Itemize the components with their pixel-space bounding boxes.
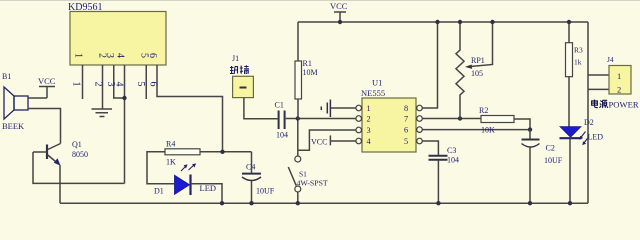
node junction VCC on rail (338, 20, 342, 24)
wire R3 top lead (568, 22, 570, 43)
wire C1 right to NE555 pin 2 (286, 118, 356, 120)
node junction R2/pin6/C2 (528, 127, 532, 131)
wire R4 left loop to D1 anode (147, 152, 174, 184)
wire speaker bottom terminal to Q1 collector (28, 109, 61, 144)
node junction RP1/pin7 (458, 116, 462, 120)
wire J4 pin 2 stub (588, 88, 609, 90)
wire J4 pin 1 stub (588, 74, 609, 76)
diode D2 LED (560, 118, 604, 145)
LED emission arrows (181, 165, 195, 172)
wiper (469, 22, 493, 67)
svg-text:C3: C3 (447, 146, 456, 155)
node junction S1 ground (296, 201, 300, 205)
capacitor C2 (522, 140, 563, 166)
wire U1 pin 3 bend to S1 net (298, 130, 356, 150)
resistor R4 (165, 140, 200, 167)
wire KD9561 pin 5 stub (145, 65, 147, 99)
svg-text:104: 104 (447, 156, 459, 165)
svg-text:10UF: 10UF (544, 156, 563, 165)
svg-text:2: 2 (617, 85, 621, 95)
svg-text:105: 105 (471, 69, 483, 78)
svg-text:104: 104 (276, 131, 288, 140)
svg-text:5: 5 (135, 82, 146, 87)
wire R4 right to pin6 net and C4 (200, 151, 252, 153)
svg-text:1k: 1k (574, 58, 582, 67)
wire KD9561 pin 4 down to base loop (124, 65, 126, 183)
svg-text:C1: C1 (275, 101, 284, 110)
node junction R4/pin6 (220, 150, 224, 154)
svg-text:1: 1 (71, 82, 82, 87)
svg-text:3: 3 (367, 126, 371, 135)
svg-text:R2: R2 (479, 106, 488, 115)
svg-text:LED: LED (200, 183, 217, 193)
svg-text:J4: J4 (607, 55, 614, 64)
node junction R1/C1/S1 (296, 116, 300, 120)
wire J1 to C1 (244, 98, 278, 119)
wire bottom rail ground (60, 202, 588, 204)
wire Q1 emitter to ground rail (59, 165, 61, 203)
svg-text:8050: 8050 (72, 150, 88, 159)
svg-text:C4: C4 (246, 163, 255, 172)
wire KD9561 pin 1 stub (82, 65, 84, 99)
node junction C2 ground (528, 201, 532, 205)
chip U1 NE555 (361, 78, 416, 153)
wire KD9561 pin 6 to R4 net (157, 65, 223, 152)
svg-text:4: 4 (115, 53, 126, 58)
svg-text:R1: R1 (303, 59, 312, 68)
svg-text:D2: D2 (584, 118, 594, 127)
svg-text:1: 1 (367, 104, 371, 113)
node junction pin3/pin4 (122, 96, 126, 100)
wire C4 bottom lead (251, 181, 253, 203)
body zigzag (456, 22, 464, 119)
svg-text:6: 6 (147, 53, 158, 58)
base bar (46, 145, 48, 160)
wire D1 cathode to ground rail (191, 184, 223, 204)
wire R1 top lead (297, 22, 299, 61)
svg-text:J1: J1 (232, 54, 239, 63)
wire C4 top lead (251, 152, 253, 173)
wire U1 pin 6 to R2 right net (422, 129, 530, 131)
svg-text:NE555: NE555 (361, 88, 385, 98)
node junction D1 ground (220, 201, 224, 205)
node junction pin8 rail (435, 20, 439, 24)
wire R2 right bend to pin6 net (514, 119, 530, 130)
svg-text:4: 4 (114, 82, 125, 87)
capacitor C4 (242, 163, 275, 196)
svg-text:RP1: RP1 (471, 56, 485, 65)
pin 3 of U1 (356, 127, 362, 133)
resistor R2 (479, 106, 514, 135)
connector J4 POWER (607, 55, 631, 95)
wire speaker top terminal to VCC (28, 97, 47, 99)
svg-text:VCC: VCC (311, 138, 327, 147)
svg-text:4W-SPST: 4W-SPST (297, 179, 328, 188)
svg-text:U1: U1 (372, 78, 382, 88)
svg-text:Q1: Q1 (72, 140, 82, 149)
svg-text:B1: B1 (2, 72, 11, 81)
wire S1 top to R1/C1 junction (297, 119, 299, 156)
wire U1 pin 7 to RP1/R2 (422, 118, 481, 120)
svg-text:LED: LED (588, 133, 604, 142)
ground symbol rotated at U1 pin 1 (331, 107, 356, 109)
diode D1 LED (154, 163, 216, 195)
pin 4 of U1 (356, 138, 362, 144)
resistor R3 (566, 43, 584, 77)
base wire (33, 151, 47, 153)
wire J4 pin 2 down to ground rail (587, 89, 589, 203)
collector diagonal (48, 144, 61, 150)
wire VCC port to pin 4 (330, 140, 356, 142)
svg-text:10K: 10K (481, 126, 495, 135)
wire S1 bottom to ground rail (297, 192, 299, 203)
pin 5 of U1 (417, 138, 423, 144)
transistor Q1 8050 (33, 140, 88, 166)
chip U2 KD9561 (68, 2, 166, 65)
node junction C4 ground (249, 201, 253, 205)
node junction RP1 wiper rail (490, 20, 494, 24)
svg-text:6: 6 (148, 82, 159, 87)
pin 8 of U1 (417, 105, 423, 111)
svg-text:5: 5 (404, 137, 408, 146)
power VCC port at U1 pin 4 (311, 135, 330, 146)
pin 1 of U1 (356, 105, 362, 111)
wire C2 top lead (529, 130, 531, 139)
power VCC symbol speaker (38, 76, 56, 98)
svg-text:VCC: VCC (38, 76, 56, 86)
svg-text:R4: R4 (166, 140, 175, 149)
svg-text:1K: 1K (166, 158, 176, 167)
svg-text:1: 1 (73, 53, 84, 58)
wire C2 bottom to ground rail (529, 148, 531, 204)
svg-text:10UF: 10UF (256, 187, 275, 196)
svg-text:1: 1 (617, 71, 621, 81)
capacitor C3 (429, 146, 460, 165)
pin 7 of U1 (417, 116, 423, 122)
svg-text:R3: R3 (574, 46, 583, 55)
svg-text:BEEK: BEEK (2, 121, 25, 131)
speaker B1 (2, 72, 28, 131)
wire KD9561 pin 3 jog to pin 4 net (114, 65, 125, 98)
wire R1 bottom lead (297, 99, 299, 119)
wire R3 bottom lead to D2 (568, 77, 570, 127)
wire U1 pin 5 to C3 (422, 141, 438, 155)
potentiometer RP1 (456, 22, 493, 119)
svg-text:8: 8 (404, 104, 408, 113)
pin 2 of U1 (356, 116, 362, 122)
node junction D2 ground (568, 201, 572, 205)
emitter diagonal with arrow (48, 155, 59, 164)
capacitor C1 (275, 101, 289, 140)
wire Q1 base loop down (33, 152, 125, 183)
node junction R3 rail (567, 20, 571, 24)
svg-text:7: 7 (404, 115, 408, 124)
wire top rail to J4 pin 1 (587, 22, 589, 89)
svg-text:6: 6 (404, 126, 408, 135)
connector J1 touch plate (230, 54, 253, 98)
svg-text:2: 2 (93, 82, 104, 87)
wire C3 bottom to ground rail (437, 161, 439, 204)
svg-text:S1: S1 (299, 170, 307, 179)
svg-text:10M: 10M (303, 68, 318, 77)
LED emission arrows (581, 132, 590, 144)
node junction C3 ground (436, 201, 440, 205)
svg-text:C2: C2 (546, 144, 555, 153)
resistor R1 (295, 59, 318, 99)
svg-text:VCC: VCC (330, 1, 348, 11)
svg-text:D1: D1 (154, 187, 164, 196)
wire top rail VCC (298, 21, 588, 23)
node junction RP1 rail (458, 20, 462, 24)
svg-text:3: 3 (104, 53, 115, 58)
label chinese chumo (touch) (230, 65, 249, 74)
wire U1 pin 8 to top rail (422, 22, 437, 108)
switch S1 4W-SPST (288, 156, 328, 192)
power VCC symbol top (330, 1, 348, 22)
pin 6 of U1 (417, 127, 423, 133)
label chinese dianyuan POWER (592, 100, 639, 110)
svg-text:2: 2 (367, 115, 371, 124)
wire D2 cathode to ground rail (569, 138, 571, 203)
ground symbol under KD9561 (92, 109, 113, 117)
svg-text:POWER: POWER (609, 100, 639, 110)
wire KD9561 pin 2 to ground (102, 65, 104, 109)
